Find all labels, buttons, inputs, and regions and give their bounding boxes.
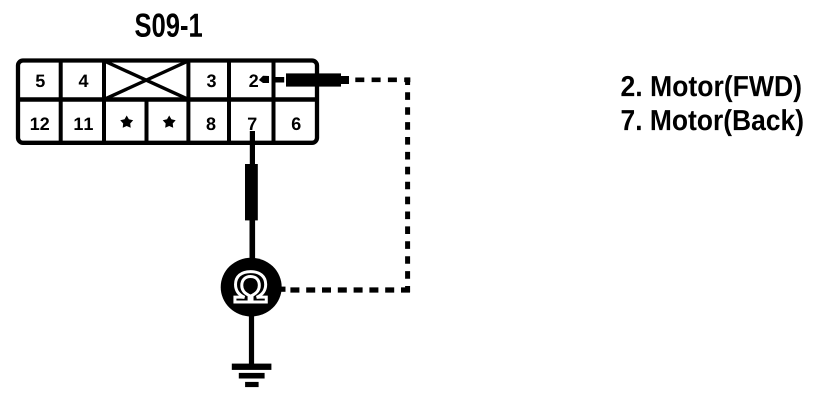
dashed test lead: bottom horizontal segment: [284, 287, 410, 292]
column divider between pin 2/blank and 7/6: [272, 61, 276, 143]
unused-cavity X cross: [104, 61, 188, 99]
pin number 4: [79, 75, 89, 87]
column divider between pin 4/X-cell and 11/*: [102, 61, 106, 143]
column divider between the two * cells (bottom row only): [145, 100, 149, 143]
legend line: 2. Motor(FWD): [621, 75, 800, 102]
pin number 5: [36, 75, 45, 88]
star mark left: [120, 116, 133, 128]
probe lead dash: [275, 77, 284, 83]
pin number 3: [207, 74, 216, 87]
wire from pin 7 down to splice: [250, 131, 255, 165]
connector label S09-1: [135, 13, 202, 37]
row divider (horizontal): [17, 97, 319, 102]
splice / fuse bar on pin 7 wire: [245, 164, 258, 220]
connector S09-1 body outline: [18, 61, 317, 143]
pin number 8: [207, 117, 216, 130]
ground symbol: [232, 364, 272, 388]
pin number 6: [292, 117, 301, 130]
probe arrowhead at pin 2: [259, 76, 269, 83]
wire from splice down to ohmmeter: [250, 219, 256, 260]
column divider between pins 3/2 and 8/7: [227, 61, 231, 143]
dashed test lead: top horizontal segment: [355, 78, 410, 83]
ohmmeter (ohm symbol in circle): [221, 258, 282, 317]
ohmmeter stub (right nub): [279, 287, 286, 292]
probe body (thick bar): [286, 73, 341, 86]
pin number 11: [75, 118, 93, 130]
column divider between X-cell/pin 3 and */8: [186, 61, 190, 143]
pin number 7: [248, 118, 256, 130]
pin number 12: [31, 117, 49, 130]
probe tip: [341, 76, 349, 84]
pin number 2: [249, 74, 258, 87]
dashed test lead: right vertical segment: [405, 77, 410, 292]
wire from ohmmeter down to ground: [249, 316, 254, 365]
star mark right: [163, 116, 176, 128]
column divider between pins 5/4 and 12/11: [59, 61, 63, 143]
legend line: 7. Motor(Back): [622, 109, 803, 136]
